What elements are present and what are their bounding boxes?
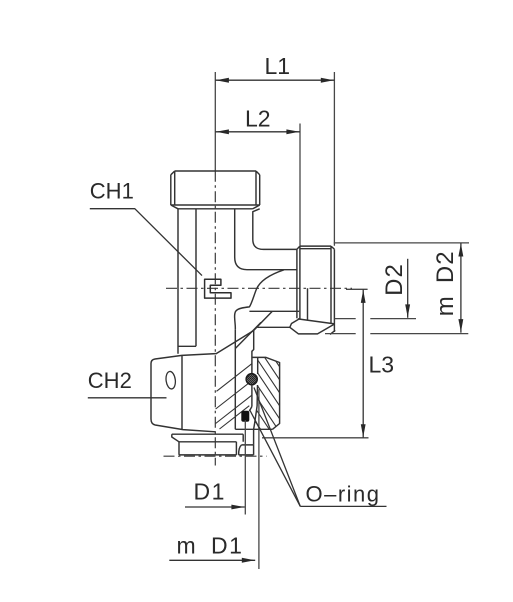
svg-text:D1: D1 [194, 479, 226, 505]
body cone shoulder line [249, 310, 299, 312]
branch cap bottom slant edge [298, 319, 335, 324]
body bore wall in section [234, 329, 236, 429]
tube end in section with jog [249, 331, 257, 445]
L1 extension line left [214, 72, 216, 171]
L3 dimension line [362, 289, 364, 438]
L3 arrow top [361, 290, 366, 303]
retaining ring black square [241, 411, 249, 422]
D1 arrow [231, 505, 244, 510]
D1 extension line [244, 420, 246, 515]
L1 dimension line [215, 79, 334, 81]
vertical centerline of body [214, 171, 216, 466]
L1 extension line right [333, 72, 335, 246]
O-ring label underline [300, 505, 386, 507]
m D1 extension line [258, 389, 260, 569]
cone seat cut diagonal [216, 311, 273, 354]
upper tube right outer wall with elbow outer corner [253, 209, 297, 250]
O-ring seal circle [246, 374, 257, 385]
m D2 arrow top [458, 244, 463, 257]
nut section outline [235, 357, 279, 429]
D2 dimension line [407, 259, 409, 318]
L2 dimension line [215, 131, 300, 133]
svg-text:L2: L2 [245, 105, 271, 131]
m D2 top reference line [334, 242, 469, 244]
ring below nut [172, 434, 243, 442]
D1 dimension line [185, 506, 245, 508]
svg-text:m: m [432, 296, 459, 316]
branch cap bottom flange [290, 318, 335, 334]
nut CH2 outline [151, 354, 216, 432]
thread end mark on upper tube [178, 345, 196, 347]
cone seat inner diagonal [235, 322, 261, 348]
L1 arrow left [216, 78, 229, 83]
horizontal centerline at bottom stud [164, 455, 267, 457]
hatch body boss line 2 [216, 381, 252, 409]
L2 arrow right [286, 129, 299, 134]
m D1 dimension line [169, 559, 255, 561]
m D2 arrow bottom [458, 319, 463, 332]
m D2 dimension line [460, 243, 462, 333]
m D2 bottom reference line [325, 333, 356, 335]
svg-text:CH2: CH2 [88, 368, 132, 393]
O-ring leader from retaining ring [250, 410, 301, 507]
upper tube right inner line with elbow inner corner [235, 209, 297, 270]
L2 extension line right [299, 124, 301, 246]
L3 top reference line [346, 288, 368, 290]
D2 bottom reference line [335, 318, 356, 320]
hatch body boss line 3 [216, 395, 252, 423]
L2 arrow left [216, 129, 229, 134]
svg-text:D2: D2 [432, 250, 459, 283]
washer outline [179, 442, 236, 455]
branch cap outline [297, 246, 335, 332]
CH2 leader line [88, 397, 167, 399]
hatch body boss line 4 [220, 406, 250, 429]
svg-text:O–ring: O–ring [306, 482, 381, 507]
svg-text:L1: L1 [265, 53, 291, 79]
D2 arrow [405, 304, 410, 317]
m D1 arrow [242, 558, 255, 563]
horizontal centerline of branch [166, 287, 352, 289]
body S-curve from branch into boss wall [235, 270, 284, 329]
svg-text:D1: D1 [211, 533, 243, 559]
L1 arrow right [321, 78, 334, 83]
upper tube left outer wall [177, 209, 179, 354]
svg-text:D2: D2 [381, 263, 408, 296]
upper tube left inner line [195, 209, 197, 346]
L3 bottom reference line [262, 437, 369, 439]
hatch body boss line 1 [217, 364, 253, 392]
CH1 leader line [90, 209, 202, 276]
CH1 flats symbol [205, 279, 231, 298]
svg-text:m: m [177, 533, 196, 559]
L3 arrow bottom [361, 424, 366, 437]
svg-text:L3: L3 [369, 352, 395, 378]
top cap outline [171, 171, 260, 205]
body bottom face line [257, 326, 289, 328]
tube tip in section [239, 445, 254, 455]
top cap bottom flange [171, 205, 260, 209]
nut CH2 facet highlight ellipse [165, 371, 176, 390]
O-ring leader from seal [254, 388, 300, 507]
hatch nut section lines [255, 357, 280, 429]
svg-text:CH1: CH1 [90, 178, 134, 203]
